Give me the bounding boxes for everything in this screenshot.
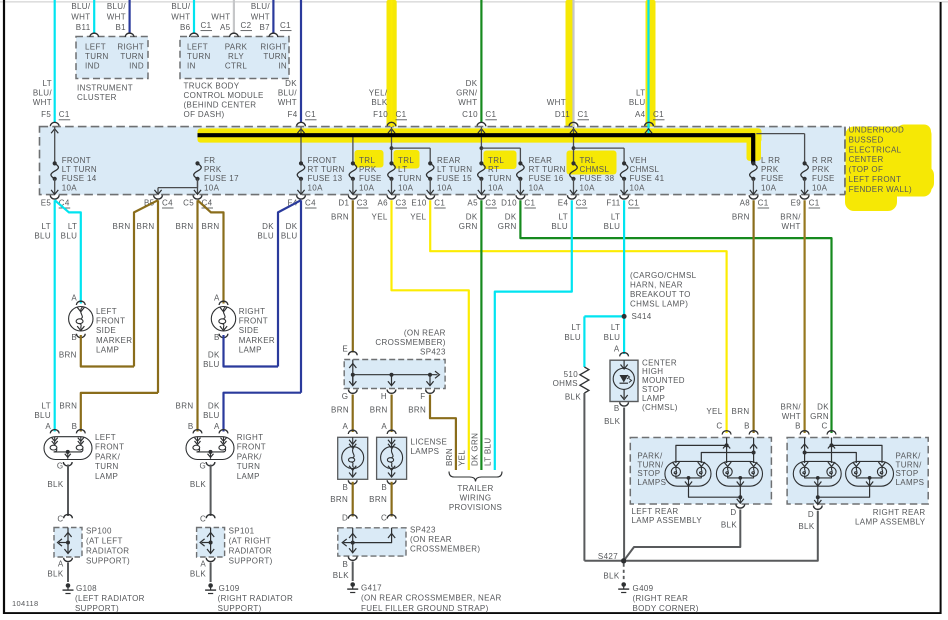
svg-text:A: A xyxy=(58,560,64,569)
svg-text:WHT: WHT xyxy=(782,222,801,231)
svg-text:OF DASH): OF DASH) xyxy=(184,110,225,119)
svg-text:PARK: PARK xyxy=(225,43,248,52)
svg-text:G: G xyxy=(200,461,207,470)
svg-text:S414: S414 xyxy=(632,312,652,321)
svg-text:C3: C3 xyxy=(396,199,407,208)
svg-text:BLU: BLU xyxy=(61,232,78,241)
svg-text:B: B xyxy=(214,333,220,342)
svg-text:WHT: WHT xyxy=(211,13,230,22)
svg-text:PARK/: PARK/ xyxy=(896,451,922,460)
svg-text:S427: S427 xyxy=(598,552,618,561)
svg-text:C1: C1 xyxy=(305,110,316,119)
svg-text:BRN: BRN xyxy=(202,222,220,231)
svg-text:YEL: YEL xyxy=(706,407,722,416)
svg-text:(LEFT RADIATOR: (LEFT RADIATOR xyxy=(75,594,145,603)
svg-text:MARKER: MARKER xyxy=(239,336,275,345)
svg-text:R RR: R RR xyxy=(812,156,833,165)
svg-text:YEL: YEL xyxy=(410,212,426,221)
svg-text:104118: 104118 xyxy=(12,599,39,608)
svg-text:FRONT: FRONT xyxy=(95,443,124,452)
svg-text:WHT: WHT xyxy=(251,13,270,22)
svg-text:LAMP: LAMP xyxy=(239,346,262,355)
svg-text:GRN: GRN xyxy=(498,222,517,231)
svg-text:PRK: PRK xyxy=(812,165,830,174)
svg-text:C1: C1 xyxy=(485,110,496,119)
svg-text:TRUCK BODY: TRUCK BODY xyxy=(184,82,240,91)
svg-text:MARKER: MARKER xyxy=(96,336,132,345)
svg-text:10A: 10A xyxy=(359,183,375,192)
svg-text:C1: C1 xyxy=(628,199,639,208)
svg-text:A6: A6 xyxy=(378,199,389,208)
svg-text:WHT: WHT xyxy=(171,13,190,22)
svg-text:BUSSED: BUSSED xyxy=(849,135,884,144)
svg-text:FRONT: FRONT xyxy=(96,317,125,326)
svg-text:WHT: WHT xyxy=(547,98,566,107)
svg-text:DK: DK xyxy=(285,79,297,88)
svg-text:G: G xyxy=(342,392,349,401)
svg-text:10A: 10A xyxy=(204,183,220,192)
svg-text:RIGHT: RIGHT xyxy=(237,433,264,442)
svg-text:BLU/: BLU/ xyxy=(33,89,53,98)
svg-text:E: E xyxy=(342,345,348,354)
svg-text:LT: LT xyxy=(636,89,645,98)
svg-text:RT TURN: RT TURN xyxy=(308,165,345,174)
svg-text:VEH: VEH xyxy=(630,156,648,165)
svg-text:LAMP ASSEMBLY: LAMP ASSEMBLY xyxy=(855,518,926,527)
svg-text:WHT: WHT xyxy=(107,13,126,22)
svg-text:BLU: BLU xyxy=(629,98,646,107)
svg-text:(CHMSL): (CHMSL) xyxy=(642,403,678,412)
svg-text:FUSE: FUSE xyxy=(812,174,835,183)
svg-text:F10: F10 xyxy=(373,110,388,119)
svg-text:RADIATOR: RADIATOR xyxy=(86,547,129,556)
svg-text:FRONT: FRONT xyxy=(237,443,266,452)
svg-text:CONTROL MODULE: CONTROL MODULE xyxy=(184,91,264,100)
svg-text:BLU: BLU xyxy=(257,232,274,241)
svg-text:LAMPS: LAMPS xyxy=(896,478,925,487)
svg-text:BLK: BLK xyxy=(721,520,737,529)
svg-text:10A: 10A xyxy=(529,183,545,192)
svg-text:LAMPS: LAMPS xyxy=(637,478,666,487)
svg-text:A: A xyxy=(381,422,387,431)
svg-text:C: C xyxy=(200,514,206,523)
svg-text:BLU/: BLU/ xyxy=(71,2,91,11)
svg-text:C3: C3 xyxy=(357,199,368,208)
svg-text:BLK: BLK xyxy=(371,98,387,107)
svg-text:CHMSL LAMP): CHMSL LAMP) xyxy=(630,300,688,309)
svg-text:FUEL FILLER GROUND STRAP): FUEL FILLER GROUND STRAP) xyxy=(361,604,489,613)
svg-text:(BEHIND CENTER: (BEHIND CENTER xyxy=(184,101,257,110)
svg-text:PARK/: PARK/ xyxy=(637,451,663,460)
svg-text:FUSE 17: FUSE 17 xyxy=(204,174,239,183)
svg-text:FUSE 14: FUSE 14 xyxy=(62,174,97,183)
svg-text:BRN: BRN xyxy=(331,406,349,415)
svg-text:L RR: L RR xyxy=(761,156,780,165)
svg-text:BLK: BLK xyxy=(190,570,206,579)
svg-text:BRN: BRN xyxy=(408,406,426,415)
svg-text:10A: 10A xyxy=(761,183,777,192)
svg-text:B6: B6 xyxy=(180,23,191,32)
svg-text:BLU/: BLU/ xyxy=(171,2,191,11)
svg-text:FRONT: FRONT xyxy=(239,317,268,326)
svg-text:RIGHT: RIGHT xyxy=(117,43,144,52)
svg-text:TRL: TRL xyxy=(488,156,504,165)
svg-text:BRN/: BRN/ xyxy=(780,402,801,411)
svg-text:A: A xyxy=(214,293,220,302)
svg-text:MOUNTED: MOUNTED xyxy=(642,376,685,385)
svg-text:UNDERHOOD: UNDERHOOD xyxy=(849,126,905,135)
svg-text:TURN: TURN xyxy=(488,174,512,183)
svg-text:A5: A5 xyxy=(220,23,231,32)
svg-text:BRN: BRN xyxy=(113,222,131,231)
svg-text:FRONT: FRONT xyxy=(62,156,91,165)
svg-text:BRN: BRN xyxy=(137,222,155,231)
svg-text:BLU: BLU xyxy=(604,333,621,342)
svg-text:SP423: SP423 xyxy=(410,525,436,534)
svg-text:LT: LT xyxy=(398,165,407,174)
svg-text:LAMP: LAMP xyxy=(237,472,260,481)
svg-text:FR: FR xyxy=(204,156,215,165)
svg-text:A5: A5 xyxy=(467,199,478,208)
svg-text:C1: C1 xyxy=(524,199,535,208)
svg-text:LT TURN: LT TURN xyxy=(62,165,97,174)
svg-text:RT TURN: RT TURN xyxy=(529,165,566,174)
svg-text:BRN: BRN xyxy=(176,401,194,410)
svg-text:LEFT REAR: LEFT REAR xyxy=(632,507,679,516)
svg-text:RADIATOR: RADIATOR xyxy=(229,547,272,556)
svg-text:TURN: TURN xyxy=(95,462,119,471)
svg-text:SUPPORT): SUPPORT) xyxy=(75,604,119,613)
svg-text:BLK: BLK xyxy=(47,570,63,579)
svg-text:C2: C2 xyxy=(241,21,252,30)
svg-text:B: B xyxy=(188,422,194,431)
svg-text:BODY CORNER): BODY CORNER) xyxy=(633,604,699,613)
svg-text:WHT: WHT xyxy=(71,13,90,22)
svg-text:FUSE: FUSE xyxy=(761,174,784,183)
svg-text:DK: DK xyxy=(208,350,220,359)
svg-text:A: A xyxy=(200,560,206,569)
svg-text:IN: IN xyxy=(187,62,196,71)
svg-text:BLU: BLU xyxy=(564,333,581,342)
svg-text:WHT: WHT xyxy=(33,98,52,107)
svg-text:TURN: TURN xyxy=(237,462,261,471)
svg-text:(ON REAR: (ON REAR xyxy=(410,535,452,544)
svg-text:(CARGO/CHMSL: (CARGO/CHMSL xyxy=(630,271,697,280)
svg-text:BRN/: BRN/ xyxy=(780,212,801,221)
svg-text:INSTRUMENT: INSTRUMENT xyxy=(77,84,133,93)
svg-text:(RIGHT RADIATOR: (RIGHT RADIATOR xyxy=(218,594,293,603)
svg-text:TRAILER: TRAILER xyxy=(457,484,493,493)
svg-text:CENTER: CENTER xyxy=(849,155,884,164)
svg-text:C1: C1 xyxy=(280,21,291,30)
svg-text:C1: C1 xyxy=(653,110,664,119)
svg-text:C4: C4 xyxy=(162,199,173,208)
svg-text:CROSSMEMBER): CROSSMEMBER) xyxy=(410,545,480,554)
svg-text:PROVISIONS: PROVISIONS xyxy=(449,503,502,512)
svg-text:LT: LT xyxy=(43,79,52,88)
svg-text:B: B xyxy=(343,483,349,492)
svg-text:CTRL: CTRL xyxy=(225,62,247,71)
svg-text:E10: E10 xyxy=(411,199,426,208)
svg-text:D10: D10 xyxy=(501,199,517,208)
svg-text:B: B xyxy=(343,560,349,569)
svg-text:C1: C1 xyxy=(201,21,212,30)
svg-text:TURN/: TURN/ xyxy=(637,460,664,469)
svg-text:BLU: BLU xyxy=(34,411,51,420)
svg-text:DK: DK xyxy=(466,79,478,88)
svg-text:BLU: BLU xyxy=(551,222,568,231)
svg-text:C: C xyxy=(716,422,722,431)
svg-text:SUPPORT): SUPPORT) xyxy=(86,557,130,566)
svg-text:BLK: BLK xyxy=(565,393,581,402)
svg-text:FUSE 16: FUSE 16 xyxy=(529,174,564,183)
svg-text:10A: 10A xyxy=(488,183,504,192)
svg-text:HARN, NEAR: HARN, NEAR xyxy=(630,280,683,289)
svg-text:HIGH: HIGH xyxy=(642,367,663,376)
svg-text:10A: 10A xyxy=(812,183,828,192)
svg-text:PARK/: PARK/ xyxy=(237,452,263,461)
svg-text:SUPPORT): SUPPORT) xyxy=(218,604,262,613)
svg-text:LEFT: LEFT xyxy=(187,43,208,52)
svg-text:C1: C1 xyxy=(59,110,70,119)
svg-text:WHT: WHT xyxy=(458,98,477,107)
svg-text:WHT: WHT xyxy=(278,98,297,107)
svg-text:IN: IN xyxy=(278,62,287,71)
svg-text:BRN: BRN xyxy=(370,406,388,415)
svg-text:B: B xyxy=(744,422,750,431)
svg-text:BLK: BLK xyxy=(604,417,620,426)
svg-text:PRK: PRK xyxy=(359,165,377,174)
svg-text:RIGHT: RIGHT xyxy=(239,307,266,316)
svg-text:F4: F4 xyxy=(287,110,297,119)
svg-text:C1: C1 xyxy=(434,199,445,208)
svg-text:BLU: BLU xyxy=(34,232,51,241)
svg-text:DK: DK xyxy=(505,212,517,221)
svg-text:TRL: TRL xyxy=(398,156,414,165)
svg-text:PARK/: PARK/ xyxy=(95,452,121,461)
svg-text:LAMP: LAMP xyxy=(96,346,119,355)
svg-text:DK: DK xyxy=(286,222,298,231)
svg-text:B11: B11 xyxy=(76,23,91,32)
svg-text:F11: F11 xyxy=(606,199,620,208)
svg-text:E5: E5 xyxy=(41,199,52,208)
svg-text:D: D xyxy=(808,510,814,519)
svg-text:10A: 10A xyxy=(630,183,646,192)
svg-text:BRN: BRN xyxy=(176,222,194,231)
svg-text:CHMSL: CHMSL xyxy=(630,165,660,174)
svg-text:GRN/: GRN/ xyxy=(456,89,478,98)
svg-text:FUSE 15: FUSE 15 xyxy=(437,174,472,183)
svg-text:B: B xyxy=(72,422,78,431)
svg-text:PRK: PRK xyxy=(204,165,222,174)
svg-text:BLU: BLU xyxy=(604,222,621,231)
svg-text:LT: LT xyxy=(572,323,581,332)
svg-text:A8: A8 xyxy=(740,199,751,208)
svg-text:C1: C1 xyxy=(758,199,769,208)
svg-text:LT BLU: LT BLU xyxy=(484,438,493,466)
svg-text:TURN: TURN xyxy=(263,52,287,61)
svg-text:WIRING: WIRING xyxy=(460,493,492,502)
svg-text:BLK: BLK xyxy=(190,480,206,489)
svg-text:CLUSTER: CLUSTER xyxy=(77,93,117,102)
svg-text:STOP: STOP xyxy=(637,469,660,478)
svg-text:BRN: BRN xyxy=(330,495,348,504)
svg-text:BLK: BLK xyxy=(47,480,63,489)
svg-text:BLK: BLK xyxy=(333,571,349,580)
svg-text:A: A xyxy=(71,293,77,302)
svg-text:C1: C1 xyxy=(396,110,407,119)
svg-text:C5: C5 xyxy=(183,199,194,208)
svg-text:RIGHT REAR: RIGHT REAR xyxy=(873,508,926,517)
svg-text:GRN: GRN xyxy=(459,222,478,231)
svg-text:10A: 10A xyxy=(437,183,453,192)
svg-text:LT: LT xyxy=(611,323,620,332)
svg-text:LICENSE: LICENSE xyxy=(411,438,448,447)
svg-text:BLU: BLU xyxy=(203,360,220,369)
svg-text:DK: DK xyxy=(466,212,478,221)
svg-text:BLU/: BLU/ xyxy=(251,2,271,11)
svg-text:F: F xyxy=(420,392,425,401)
svg-text:TRL: TRL xyxy=(359,156,375,165)
svg-text:G109: G109 xyxy=(219,584,240,593)
svg-text:H: H xyxy=(381,392,387,401)
svg-text:F5: F5 xyxy=(41,110,51,119)
svg-text:(AT RIGHT: (AT RIGHT xyxy=(229,537,271,546)
svg-text:D: D xyxy=(730,508,736,517)
svg-text:BRN: BRN xyxy=(59,350,77,359)
svg-text:SP423: SP423 xyxy=(420,348,446,357)
svg-text:TURN/: TURN/ xyxy=(896,460,923,469)
svg-text:A: A xyxy=(614,345,620,354)
svg-text:C: C xyxy=(381,514,387,523)
svg-text:A: A xyxy=(45,422,51,431)
svg-text:C1: C1 xyxy=(578,110,589,119)
svg-text:C3: C3 xyxy=(576,199,587,208)
svg-text:FENDER WALL): FENDER WALL) xyxy=(849,185,912,194)
svg-text:A4: A4 xyxy=(635,110,646,119)
svg-text:BRN: BRN xyxy=(369,495,387,504)
svg-text:LT: LT xyxy=(42,222,51,231)
svg-text:PRK: PRK xyxy=(761,165,779,174)
svg-text:OHMS: OHMS xyxy=(553,379,578,388)
svg-text:B1: B1 xyxy=(116,23,127,32)
svg-text:LAMP ASSEMBLY: LAMP ASSEMBLY xyxy=(632,516,703,525)
svg-text:TURN: TURN xyxy=(120,52,144,61)
svg-text:YEL: YEL xyxy=(372,212,388,221)
svg-text:(ON REAR CROSSMEMBER, NEAR: (ON REAR CROSSMEMBER, NEAR xyxy=(361,594,502,603)
svg-text:CHMSL: CHMSL xyxy=(580,165,610,174)
svg-text:TURN: TURN xyxy=(85,52,109,61)
svg-text:LEFT: LEFT xyxy=(95,433,116,442)
svg-text:RLY: RLY xyxy=(228,52,244,61)
svg-text:RT: RT xyxy=(488,165,499,174)
svg-text:B: B xyxy=(381,483,387,492)
svg-text:10A: 10A xyxy=(308,183,324,192)
svg-text:SP100: SP100 xyxy=(86,527,112,536)
svg-text:REAR: REAR xyxy=(529,156,553,165)
svg-text:STOP: STOP xyxy=(642,385,665,394)
svg-text:LT TURN: LT TURN xyxy=(437,165,472,174)
svg-text:LT: LT xyxy=(68,222,77,231)
svg-text:10A: 10A xyxy=(398,183,414,192)
svg-text:LT: LT xyxy=(42,401,51,410)
svg-text:LT: LT xyxy=(611,212,620,221)
svg-text:LAMP: LAMP xyxy=(642,394,665,403)
svg-text:FUSE 41: FUSE 41 xyxy=(630,174,665,183)
svg-text:G: G xyxy=(57,461,64,470)
svg-text:GRN: GRN xyxy=(810,412,829,421)
svg-text:YEL: YEL xyxy=(458,450,467,466)
svg-text:LEFT: LEFT xyxy=(85,43,106,52)
svg-text:510: 510 xyxy=(564,370,579,379)
svg-text:D11: D11 xyxy=(555,110,570,119)
svg-text:BRN: BRN xyxy=(59,401,77,410)
svg-text:C1: C1 xyxy=(809,199,820,208)
svg-text:LT: LT xyxy=(559,212,568,221)
svg-text:(TOP OF: (TOP OF xyxy=(849,165,884,174)
svg-text:C4: C4 xyxy=(305,199,316,208)
svg-text:FUSE 38: FUSE 38 xyxy=(580,174,615,183)
svg-text:DK: DK xyxy=(262,222,274,231)
svg-text:CENTER: CENTER xyxy=(642,358,677,367)
svg-text:LEFT FRONT: LEFT FRONT xyxy=(849,175,902,184)
svg-text:D: D xyxy=(342,514,348,523)
svg-text:B: B xyxy=(71,333,77,342)
svg-text:STOP: STOP xyxy=(896,469,919,478)
svg-text:LAMPS: LAMPS xyxy=(411,447,440,456)
svg-text:DK GRN: DK GRN xyxy=(471,433,480,466)
svg-text:C: C xyxy=(57,514,63,523)
svg-text:(RIGHT REAR: (RIGHT REAR xyxy=(633,594,689,603)
svg-text:BLK: BLK xyxy=(798,522,814,531)
svg-text:10A: 10A xyxy=(580,183,596,192)
svg-text:CROSSMEMBER): CROSSMEMBER) xyxy=(375,338,445,347)
svg-text:DK: DK xyxy=(817,402,829,411)
svg-text:SUPPORT): SUPPORT) xyxy=(229,557,273,566)
svg-text:C10: C10 xyxy=(462,110,478,119)
svg-text:C: C xyxy=(822,422,828,431)
svg-text:BLU/: BLU/ xyxy=(107,2,127,11)
svg-text:A: A xyxy=(343,422,349,431)
svg-text:TURN: TURN xyxy=(398,174,422,183)
svg-text:BREAKOUT TO: BREAKOUT TO xyxy=(630,290,691,299)
svg-text:RIGHT: RIGHT xyxy=(260,43,287,52)
svg-text:IND: IND xyxy=(129,62,144,71)
svg-text:FUSE: FUSE xyxy=(359,174,382,183)
svg-text:FRONT: FRONT xyxy=(308,156,337,165)
svg-text:SP101: SP101 xyxy=(229,527,255,536)
svg-text:A: A xyxy=(214,422,220,431)
svg-text:E4: E4 xyxy=(558,199,569,208)
svg-text:DK: DK xyxy=(208,401,220,410)
svg-text:E9: E9 xyxy=(791,199,802,208)
svg-text:BRN: BRN xyxy=(331,212,349,221)
svg-text:G108: G108 xyxy=(76,584,97,593)
svg-text:B: B xyxy=(795,422,801,431)
svg-text:(AT LEFT: (AT LEFT xyxy=(86,537,123,546)
svg-text:SIDE: SIDE xyxy=(96,326,116,335)
svg-text:B: B xyxy=(614,404,620,413)
svg-text:TURN: TURN xyxy=(187,52,211,61)
svg-text:YEL/: YEL/ xyxy=(369,89,388,98)
svg-text:WHT: WHT xyxy=(782,412,801,421)
svg-text:10A: 10A xyxy=(62,183,78,192)
svg-text:SIDE: SIDE xyxy=(239,326,259,335)
svg-text:BRN: BRN xyxy=(445,448,454,466)
svg-text:(ON REAR: (ON REAR xyxy=(404,328,446,337)
svg-text:BLK: BLK xyxy=(603,572,619,581)
svg-text:REAR: REAR xyxy=(437,156,461,165)
